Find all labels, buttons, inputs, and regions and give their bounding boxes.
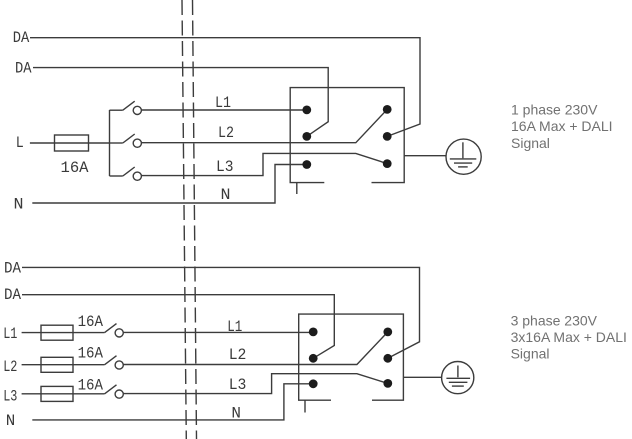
terminal X2 pin 2 (left middle)	[309, 354, 318, 363]
svg-text:L2: L2	[3, 358, 17, 376]
wire L3 (top) to right-bottom terminal	[141, 153, 387, 175]
svg-text:3 phase 230V: 3 phase 230V	[511, 313, 598, 329]
svg-text:N: N	[14, 196, 24, 214]
terminal block X2 (bottom connector box)	[299, 314, 404, 400]
terminal X1 pin 3 (left bottom)	[302, 160, 311, 169]
switch S3 (pole L3)	[110, 167, 142, 180]
terminal X1 pin 2 (left middle)	[302, 132, 311, 141]
terminal block X1 (top connector box)	[290, 88, 404, 183]
boundary dashed line (left)	[182, 0, 186, 439]
svg-text:L1: L1	[215, 94, 231, 112]
terminal X1 pin 5 (right middle)	[383, 132, 392, 141]
boundary dashed line (right)	[193, 0, 197, 439]
svg-text:L1: L1	[3, 325, 17, 343]
svg-text:L: L	[16, 134, 24, 152]
wire to protective earth (bottom)	[403, 376, 441, 378]
wire DA1 (top) to right-middle terminal	[30, 38, 420, 137]
svg-text:3x16A Max + DALI: 3x16A Max + DALI	[511, 329, 627, 345]
terminal X1 pin 6 (right bottom)	[383, 159, 392, 168]
svg-text:1 phase 230V: 1 phase 230V	[511, 102, 598, 118]
wire L2 (bottom) to right-top terminal	[123, 332, 388, 365]
fuse F1	[55, 135, 89, 151]
caption (top): 1 phase 230V 16A Max + DALI Signal	[511, 102, 613, 151]
branch wire (vertical to three switches)	[109, 110, 111, 176]
wire L1 (bottom) to left-top terminal	[123, 331, 313, 333]
wire L2 (top) to right-top terminal	[141, 109, 387, 142]
switch S2 (pole L2)	[110, 134, 142, 147]
svg-text:16A: 16A	[61, 159, 89, 177]
svg-text:DA: DA	[13, 29, 30, 47]
svg-text:L1: L1	[227, 318, 242, 336]
terminal X1 pin 1 (left top)	[302, 106, 311, 115]
protective earth symbol PE2	[442, 362, 474, 394]
svg-text:L2: L2	[229, 346, 247, 364]
svg-text:Signal: Signal	[511, 135, 550, 151]
svg-text:N: N	[221, 186, 231, 204]
mounting tick below X2	[304, 400, 306, 412]
switch S6 (L3)	[105, 385, 124, 398]
svg-text:L3: L3	[3, 388, 17, 406]
fuse F4	[41, 386, 73, 401]
svg-text:16A: 16A	[78, 313, 104, 331]
svg-text:16A: 16A	[78, 345, 104, 363]
svg-text:DA: DA	[4, 260, 21, 278]
svg-text:Signal: Signal	[511, 346, 550, 362]
svg-text:N: N	[6, 412, 16, 430]
terminal X2 pin 4 (right top)	[383, 328, 392, 337]
terminal X2 pin 3 (left bottom)	[309, 379, 318, 388]
svg-text:N: N	[231, 405, 241, 423]
wire N (top) to left-bottom terminal	[32, 165, 307, 204]
svg-text:L2: L2	[218, 124, 234, 142]
svg-text:L3: L3	[229, 376, 247, 394]
wire L2 into fuse F3	[22, 364, 105, 366]
svg-text:DA: DA	[15, 60, 32, 78]
svg-text:16A: 16A	[78, 377, 104, 395]
mounting tick below X1	[296, 183, 298, 194]
wire L1 into fuse F2	[22, 332, 105, 334]
caption (bottom): 3 phase 230V 3x16A Max + DALI Signal	[511, 313, 627, 362]
wire L3 (bottom) to right-bottom terminal	[123, 374, 388, 394]
wire DA2 (top) to left-middle terminal	[33, 68, 328, 137]
terminal X2 pin 5 (right middle)	[383, 354, 392, 363]
wire L1 (top)	[141, 109, 306, 111]
wire to protective earth (top)	[404, 155, 446, 157]
terminal X2 pin 1 (left top)	[309, 328, 318, 337]
wire N (bottom) to left-bottom terminal	[32, 384, 313, 420]
terminal X1 pin 4 (right top)	[383, 105, 392, 114]
svg-text:L3: L3	[216, 158, 234, 176]
svg-text:16A Max + DALI: 16A Max + DALI	[511, 118, 613, 134]
fuse F2	[41, 325, 73, 340]
protective earth symbol PE1	[446, 139, 481, 174]
svg-text:DA: DA	[4, 286, 21, 304]
wire DA2 (bottom) to left-middle terminal	[22, 295, 334, 359]
wire DA1 (bottom) to right-middle terminal	[22, 267, 420, 358]
fuse F3	[41, 357, 73, 372]
wire L3 into fuse F4	[22, 393, 105, 395]
switch S4 (L1)	[105, 324, 124, 337]
terminal X2 pin 6 (right bottom)	[383, 379, 392, 388]
wire L into fuse and branch point	[30, 142, 110, 144]
switch S5 (L2)	[105, 356, 124, 369]
switch S1 (pole L1)	[110, 101, 142, 114]
